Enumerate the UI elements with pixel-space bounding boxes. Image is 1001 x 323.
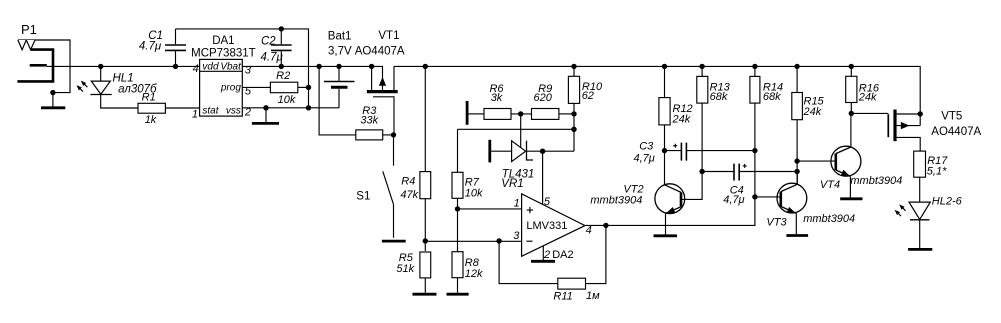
capacitor C2 xyxy=(261,26,292,66)
wire VT1 gate xyxy=(373,97,394,135)
switch S1 xyxy=(356,135,393,238)
wire DA2 output net xyxy=(585,151,755,226)
svg-text:24k: 24k xyxy=(672,113,691,125)
resistor R7 xyxy=(452,129,483,251)
svg-text:DA1: DA1 xyxy=(212,35,234,47)
resistor R12 xyxy=(659,64,693,151)
svg-text:mmbt3904: mmbt3904 xyxy=(803,213,855,225)
transistor VT4 mmbt3904 xyxy=(820,113,902,197)
shunt regulator VR1 TL431 xyxy=(491,141,574,190)
wire prog net xyxy=(242,86,270,88)
wire R3 feed xyxy=(319,66,356,134)
resistor R16 xyxy=(846,64,880,114)
transistor VT1 AO4407A xyxy=(355,30,405,92)
svg-text:12k: 12k xyxy=(465,268,483,280)
comparator DA2 LMV331 xyxy=(513,194,591,261)
node C2 bottom xyxy=(279,64,284,69)
svg-text:4.7μ: 4.7μ xyxy=(261,52,284,64)
svg-text:AO4407A: AO4407A xyxy=(355,46,405,58)
ground (HL2-6) xyxy=(908,248,932,251)
node VT4 base xyxy=(794,158,799,163)
svg-text:3k: 3k xyxy=(491,92,503,104)
node gate/R3/S1 xyxy=(391,132,396,137)
svg-text:prog: prog xyxy=(220,82,241,93)
node R4/R5 junction xyxy=(423,238,428,243)
resistor R5 xyxy=(396,252,430,293)
svg-text:mmbt3904: mmbt3904 xyxy=(590,195,642,207)
svg-text:68k: 68k xyxy=(710,91,728,103)
svg-text:S1: S1 xyxy=(356,191,370,203)
svg-text:vdd: vdd xyxy=(202,62,219,73)
node R7 bottom xyxy=(455,206,460,211)
LED HL1 xyxy=(77,66,158,95)
wire Vbat net xyxy=(242,65,371,67)
ground (VR1 anode) xyxy=(488,140,491,163)
node VT2 base / R13 / C4 xyxy=(699,169,704,174)
svg-text:51k: 51k xyxy=(396,263,414,275)
wire main rail right xyxy=(394,66,920,114)
resistor R1 xyxy=(138,92,165,127)
ground (DA2 pin2) xyxy=(531,260,555,263)
capacitor C3 xyxy=(633,141,754,165)
resistor R17 xyxy=(914,151,949,202)
svg-text:62: 62 xyxy=(582,90,594,102)
svg-text:LMV331: LMV331 xyxy=(526,220,567,232)
node output/VT3 base xyxy=(752,194,757,199)
node C3 right / R14 xyxy=(752,148,757,153)
svg-text:24k: 24k xyxy=(803,106,822,118)
svg-text:10k: 10k xyxy=(278,94,296,106)
svg-text:3: 3 xyxy=(513,230,520,242)
ground (VT2) xyxy=(654,234,678,237)
svg-text:2: 2 xyxy=(244,107,251,119)
node vss gnd stub xyxy=(263,105,268,110)
svg-text:1k: 1k xyxy=(145,114,157,126)
node rail vss xyxy=(306,105,311,110)
svg-text:Vbat: Vbat xyxy=(220,62,242,73)
svg-text:C3: C3 xyxy=(639,141,654,153)
ground (vss) xyxy=(252,108,279,124)
node R9/R10 xyxy=(571,111,576,116)
svg-text:stat: stat xyxy=(202,106,219,117)
wire top gnd rail xyxy=(176,29,309,108)
svg-text:R4: R4 xyxy=(401,175,415,187)
wire stat net xyxy=(101,95,138,109)
IC DA1 MCP73831T xyxy=(191,35,256,120)
svg-text:AO4407A: AO4407A xyxy=(931,126,981,138)
svg-text:2: 2 xyxy=(543,249,550,261)
svg-text:C2: C2 xyxy=(261,36,276,48)
node C1 bottom xyxy=(173,64,178,69)
ground (S1) xyxy=(382,240,406,243)
ground (VT4) xyxy=(840,197,862,200)
svg-text:3,7V: 3,7V xyxy=(328,46,352,58)
svg-text:HL1: HL1 xyxy=(113,72,134,84)
transistor VT5 AO4407A xyxy=(888,110,981,152)
resistor R9 xyxy=(532,83,575,120)
svg-text:DA2: DA2 xyxy=(552,249,573,261)
svg-text:4.7μ: 4.7μ xyxy=(139,41,162,53)
svg-text:4,7μ: 4,7μ xyxy=(723,194,744,206)
svg-text:1м: 1м xyxy=(586,290,600,302)
wire DA2 pin5 supply xyxy=(542,151,544,205)
ground (P1) xyxy=(41,106,65,109)
wire inverting input net xyxy=(425,240,521,242)
resistor R13 xyxy=(697,64,731,172)
svg-text:47k: 47k xyxy=(400,189,418,201)
svg-text:5,1*: 5,1* xyxy=(927,166,947,178)
node HL1 anode xyxy=(98,64,103,69)
svg-text:1: 1 xyxy=(192,109,198,121)
svg-text:mmbt3904: mmbt3904 xyxy=(850,175,902,187)
ground (R8) xyxy=(447,293,469,296)
ground (VT3) xyxy=(786,234,808,237)
ground (R5) xyxy=(413,293,437,296)
svg-text:VR1: VR1 xyxy=(501,178,523,190)
resistor R3 xyxy=(356,105,394,140)
resistor R15 xyxy=(792,64,825,185)
wire VT4 base xyxy=(797,160,836,162)
resistor R10 xyxy=(568,64,603,152)
node output/R11 xyxy=(603,223,608,228)
svg-text:5: 5 xyxy=(544,196,551,208)
LED HL2-6 xyxy=(895,196,963,249)
ground (R6 left) xyxy=(466,101,469,125)
node R6/R9 ref xyxy=(518,111,523,116)
svg-text:VT3: VT3 xyxy=(766,217,787,229)
node R3 top xyxy=(316,64,321,69)
svg-text:33k: 33k xyxy=(360,114,378,126)
capacitor C4 xyxy=(702,164,797,207)
svg-text:4,7μ: 4,7μ xyxy=(633,152,654,164)
svg-text:620: 620 xyxy=(534,92,553,104)
node R16 / VT5 gate / VT4 collector xyxy=(849,111,854,116)
svg-text:Bat1: Bat1 xyxy=(328,30,352,42)
connector P1 xyxy=(17,22,70,107)
node C4 right / VT3 collector xyxy=(794,169,799,174)
transistor VT2 mmbt3904 xyxy=(590,151,702,236)
feedback resistor R11 xyxy=(496,225,606,302)
wire TL431 ref xyxy=(520,114,522,151)
svg-text:VT5: VT5 xyxy=(941,110,962,122)
svg-text:24k: 24k xyxy=(858,92,877,104)
svg-text:10k: 10k xyxy=(465,188,483,200)
resistor R6 xyxy=(469,83,532,120)
resistor R4 xyxy=(400,64,430,251)
wire vdd net xyxy=(47,65,200,67)
wire R7 feed xyxy=(458,128,575,130)
node C3 left xyxy=(662,148,667,153)
svg-text:68k: 68k xyxy=(763,91,781,103)
resistor R14 xyxy=(750,64,783,151)
wire vss net xyxy=(242,107,339,109)
svg-text:R1: R1 xyxy=(142,92,156,104)
node R10/R7 branch xyxy=(571,127,576,132)
svg-text:VT2: VT2 xyxy=(623,184,643,196)
svg-text:P1: P1 xyxy=(21,22,37,37)
svg-text:vss: vss xyxy=(226,106,241,117)
svg-text:1: 1 xyxy=(514,197,520,209)
transistor VT3 mmbt3904 xyxy=(755,172,855,235)
svg-text:4: 4 xyxy=(586,225,592,237)
svg-text:VT1: VT1 xyxy=(378,30,399,42)
svg-text:MCP73831T: MCP73831T xyxy=(191,48,256,60)
svg-text:R2: R2 xyxy=(276,70,290,82)
node R2 right xyxy=(306,85,311,90)
capacitor C1 xyxy=(139,29,186,67)
battery Bat1 xyxy=(324,30,355,107)
svg-text:HL2-6: HL2-6 xyxy=(932,196,963,208)
svg-text:VT4: VT4 xyxy=(820,179,840,191)
node TL431 cathode / DA2 supply xyxy=(540,149,545,154)
svg-text:R11: R11 xyxy=(553,290,572,302)
resistor R2 xyxy=(270,70,308,106)
wire VT5 gate xyxy=(851,112,888,114)
wire noninverting input net xyxy=(458,208,522,210)
svg-text:4: 4 xyxy=(193,63,199,75)
resistor R8 xyxy=(452,252,483,293)
